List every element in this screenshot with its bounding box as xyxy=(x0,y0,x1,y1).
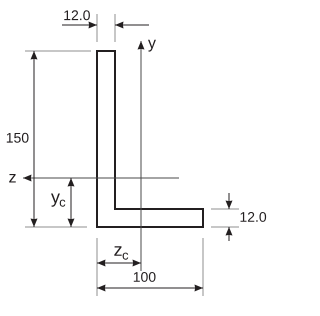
dimension 12.0 top: right arrow xyxy=(115,22,124,29)
extension line bottom edge extended left (y=227) xyxy=(25,226,87,228)
extension line bottom-left (x=97) xyxy=(96,238,98,296)
dimension yc: label xyxy=(51,194,60,207)
dimension zc: line xyxy=(97,262,141,264)
dimension yc: bottom arrow xyxy=(68,219,75,228)
L-section outline xyxy=(97,51,203,227)
dimension 12.0 right: top segment xyxy=(228,193,230,209)
dimension 12.0 right: bottom arrow xyxy=(226,227,233,236)
y axis xyxy=(140,41,142,271)
y axis arrowhead xyxy=(138,41,145,50)
extension line top edge extended left (y=51) xyxy=(25,50,91,52)
extension line top-left of leg width (x=97) xyxy=(96,14,98,42)
dimension zc: label subscript xyxy=(123,253,129,260)
dimension 12.0 top: left segment xyxy=(62,24,97,26)
dimension 100: value label xyxy=(134,272,156,282)
dimension 100: right arrow xyxy=(195,285,204,292)
dimension 12.0 top: value label xyxy=(64,10,90,20)
dimension 12.0 right: value label xyxy=(240,212,266,222)
dimension zc: right arrow xyxy=(133,260,142,267)
dimension 12.0 right: bottom segment xyxy=(228,227,230,241)
extension line flange bottom extended right (y=227) xyxy=(211,226,239,228)
extension line flange top extended right (y=209) xyxy=(211,208,239,210)
dimension zc: left arrow xyxy=(97,260,106,267)
dimension yc: top arrow xyxy=(68,178,75,187)
extension line top-right of leg width (x=115) xyxy=(114,14,116,42)
dimension 150: top arrow xyxy=(31,51,38,60)
dimension yc: line xyxy=(70,178,72,227)
dimension yc: label subscript xyxy=(60,200,66,207)
z axis xyxy=(23,177,179,179)
dimension 100: left arrow xyxy=(97,285,106,292)
dimension 150: line xyxy=(33,51,35,227)
dimension 100: line xyxy=(97,287,203,289)
dimension zc: label xyxy=(114,246,121,256)
dimension 150: value label xyxy=(7,133,29,143)
dimension 12.0 top: right segment xyxy=(115,24,149,26)
extension line bottom-right (x=203) xyxy=(202,238,204,296)
dimension 12.0 top: left arrow xyxy=(89,22,98,29)
z axis arrowhead xyxy=(23,175,32,182)
dimension 150: bottom arrow xyxy=(31,219,38,228)
z axis label xyxy=(9,174,16,182)
y axis label xyxy=(148,40,156,52)
dimension 12.0 right: top arrow xyxy=(226,201,233,210)
